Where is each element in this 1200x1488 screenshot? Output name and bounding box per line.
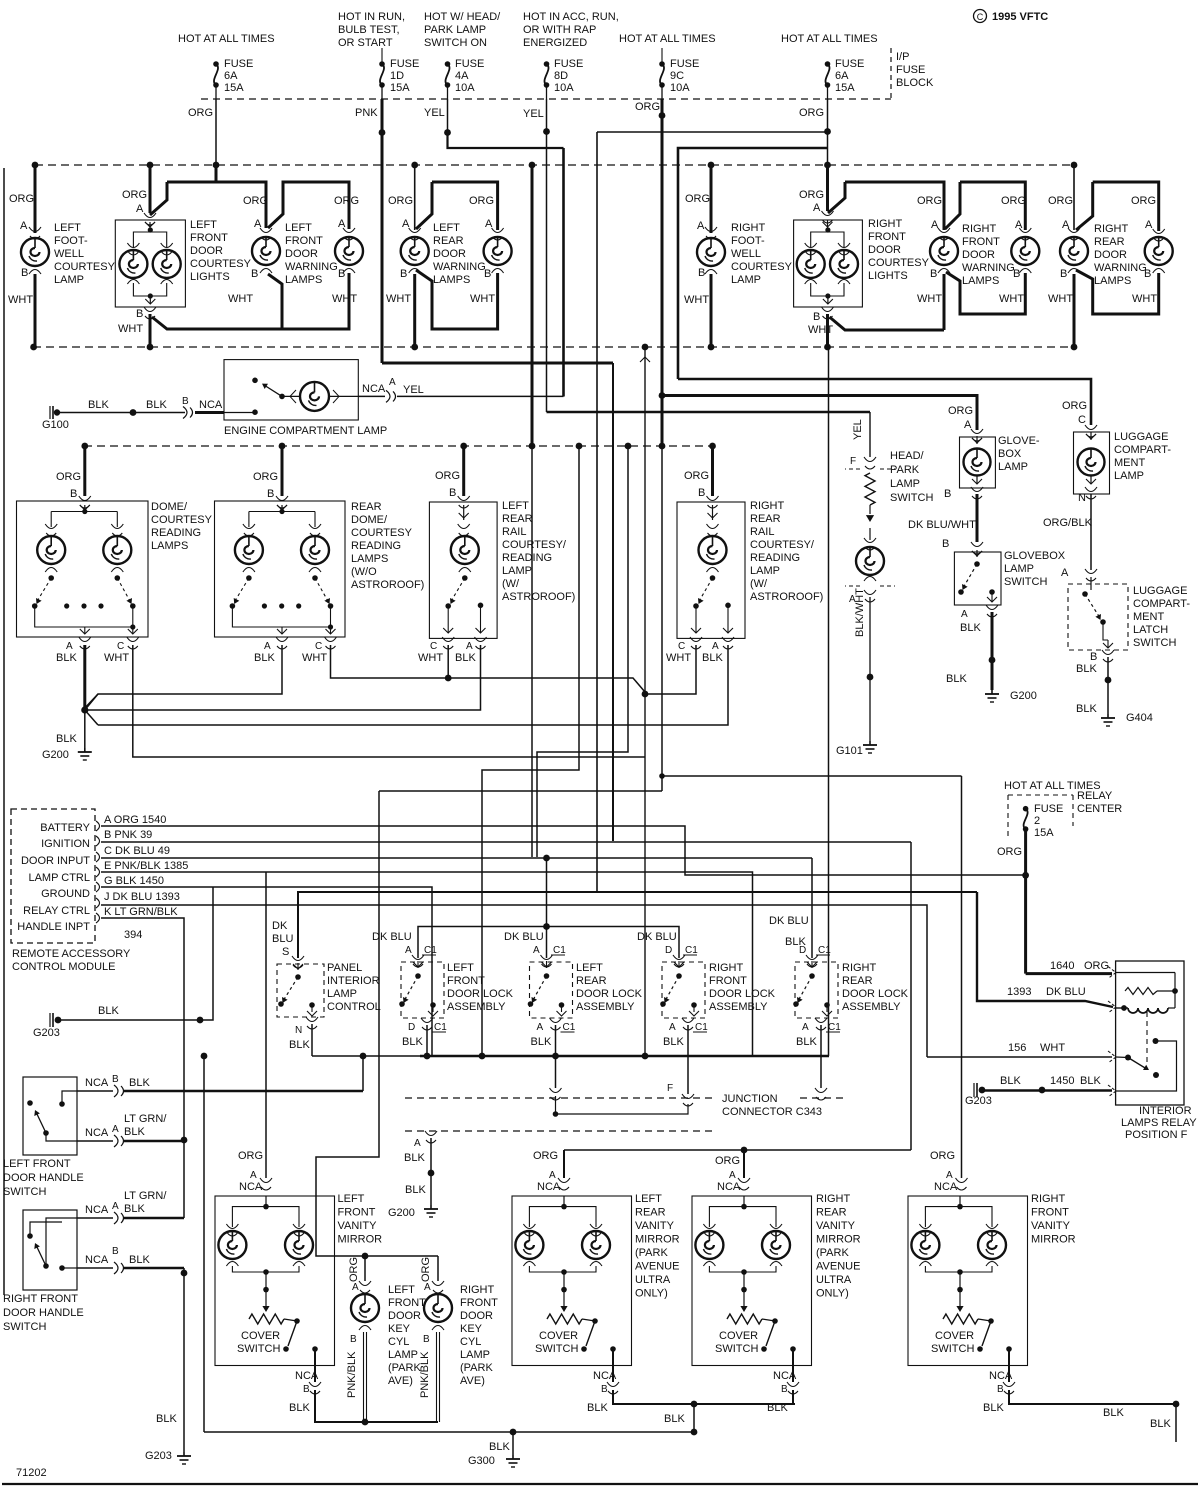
svg-text:NCA: NCA — [199, 399, 223, 411]
svg-text:394: 394 — [124, 929, 142, 941]
svg-text:AVE): AVE) — [388, 1375, 413, 1387]
svg-text:NCA: NCA — [85, 1127, 109, 1139]
svg-text:1450: 1450 — [1050, 1075, 1074, 1087]
svg-text:A: A — [669, 1022, 676, 1033]
svg-text:B: B — [944, 488, 951, 500]
svg-text:NCA: NCA — [85, 1254, 109, 1266]
wire BLK G100 to engine lamp — [57, 412, 185, 414]
lamp right footwell courtesy lamp — [710, 165, 713, 233]
svg-text:S: S — [282, 946, 289, 958]
svg-text:C: C — [117, 641, 124, 652]
svg-text:VANITY: VANITY — [635, 1220, 675, 1232]
svg-text:MENT: MENT — [1133, 611, 1164, 623]
svg-text:BLK: BLK — [1076, 663, 1097, 675]
svg-text:B: B — [930, 268, 937, 280]
svg-text:A: A — [338, 218, 346, 230]
svg-text:ENERGIZED: ENERGIZED — [523, 37, 587, 49]
svg-text:NCA: NCA — [537, 1181, 561, 1193]
svg-text:ORG: ORG — [930, 1150, 955, 1162]
svg-text:VANITY: VANITY — [1031, 1220, 1071, 1232]
wire C DK BLU 49 to door lock feed rail and right rear lock — [101, 857, 812, 859]
svg-text:RIGHT FRONT: RIGHT FRONT — [3, 1293, 78, 1305]
remote accessory control module (dashed box) — [11, 809, 95, 943]
svg-text:YEL: YEL — [403, 384, 424, 396]
svg-text:REAR: REAR — [750, 513, 781, 525]
relay actuator dashed — [1146, 1012, 1148, 1066]
svg-text:COURTESY: COURTESY — [351, 527, 413, 539]
wire vanity feed left front from E line — [265, 872, 267, 1178]
svg-text:WARNING: WARNING — [1094, 262, 1147, 274]
lamp courtesy right bulb — [153, 250, 181, 278]
wire WHT x645 bus2 to relay (upper part) — [644, 347, 646, 694]
svg-text:MIRROR: MIRROR — [635, 1234, 680, 1246]
svg-text:BLK: BLK — [767, 1402, 788, 1414]
wire PNK vertical to y363 — [381, 132, 384, 363]
svg-text:DOOR INPUT: DOOR INPUT — [21, 855, 90, 867]
vanity output NCA B BLK — [314, 1349, 316, 1382]
svg-text:ORG: ORG — [56, 471, 81, 483]
svg-text:1640: 1640 — [1050, 960, 1074, 972]
lamp assembly dome/courtesy reading lamps — [83, 446, 86, 496]
svg-text:FRONT: FRONT — [447, 975, 485, 987]
svg-text:B: B — [182, 396, 189, 407]
svg-text:WHT: WHT — [808, 324, 833, 336]
connector NCA B BLK right handle — [77, 1267, 113, 1269]
svg-text:RAIL: RAIL — [750, 526, 774, 538]
svg-text:GLOVE-: GLOVE- — [998, 435, 1040, 447]
svg-text:BLK: BLK — [960, 622, 981, 634]
wire YEL from fuse 8D — [546, 99, 548, 132]
svg-text:ORG: ORG — [917, 195, 942, 207]
svg-text:LAMPS: LAMPS — [351, 553, 388, 565]
svg-text:ORG: ORG — [435, 470, 460, 482]
svg-text:2: 2 — [1034, 815, 1040, 827]
svg-text:A: A — [352, 1282, 359, 1293]
svg-text:BLK: BLK — [946, 673, 967, 685]
svg-text:MIRROR: MIRROR — [338, 1234, 383, 1246]
svg-text:ORG: ORG — [1048, 195, 1073, 207]
svg-text:DK: DK — [272, 920, 288, 932]
svg-text:DOOR LOCK: DOOR LOCK — [576, 988, 643, 1000]
svg-text:KEY: KEY — [388, 1323, 411, 1335]
wire x579 bus3 to BLK collector — [482, 446, 579, 1056]
svg-text:AVENUE: AVENUE — [816, 1261, 860, 1273]
svg-text:G BLK 1450: G BLK 1450 — [104, 875, 164, 887]
svg-text:LAMPS RELAY: LAMPS RELAY — [1121, 1117, 1197, 1129]
svg-text:B: B — [698, 487, 705, 499]
wire DK BLU 1393 to relay — [977, 892, 1113, 1007]
svg-text:BLK: BLK — [1080, 1075, 1101, 1087]
svg-text:LEFT: LEFT — [433, 222, 460, 234]
svg-text:DOOR HANDLE: DOOR HANDLE — [3, 1172, 84, 1184]
wire PNK vertical x613 down to RACM B line — [612, 363, 614, 841]
svg-text:HANDLE INPT: HANDLE INPT — [17, 921, 90, 933]
svg-text:READING: READING — [750, 552, 800, 564]
svg-text:C: C — [678, 641, 685, 652]
svg-text:9C: 9C — [670, 70, 684, 82]
relay switch blade — [1125, 1055, 1131, 1061]
svg-text:DOOR: DOOR — [962, 249, 995, 261]
RACM pin connectors — [96, 821, 100, 831]
svg-text:G200: G200 — [42, 749, 69, 761]
lamp right front warning right bulb — [1011, 237, 1039, 265]
svg-text:FUSE: FUSE — [390, 58, 419, 70]
svg-text:BLK: BLK — [289, 1039, 310, 1051]
svg-text:DK BLU: DK BLU — [1046, 986, 1086, 998]
lamp assembly left front door warning lamps — [215, 165, 218, 182]
wire BLK left front vanity output — [315, 1390, 438, 1422]
svg-text:HOT IN ACC, RUN,: HOT IN ACC, RUN, — [523, 11, 619, 23]
svg-text:WHT: WHT — [228, 293, 253, 305]
svg-text:NCA: NCA — [295, 1370, 319, 1382]
wire YEL from fuse 4A — [447, 99, 449, 132]
left page border — [3, 168, 5, 1295]
fuse 1D 15A — [381, 48, 383, 64]
svg-text:LAMP: LAMP — [731, 274, 761, 286]
svg-text:A: A — [729, 1170, 736, 1181]
ground G200 right — [991, 690, 993, 694]
svg-text:B: B — [303, 1384, 310, 1395]
svg-text:RELAY CTRL: RELAY CTRL — [23, 905, 90, 917]
wire BLK 1450 BLK G203 to relay — [982, 1089, 1112, 1092]
svg-text:C1: C1 — [828, 1022, 841, 1033]
bus ORG distribution (dashed) y165 — [35, 164, 1074, 166]
svg-text:FUSE: FUSE — [224, 58, 253, 70]
svg-text:B: B — [781, 1384, 788, 1395]
svg-text:E PNK/BLK 1385: E PNK/BLK 1385 — [104, 860, 188, 872]
svg-text:VANITY: VANITY — [338, 1220, 378, 1232]
svg-text:B: B — [400, 268, 407, 280]
connector NCA A LT GRN/BLK left handle — [77, 1140, 113, 1142]
svg-text:ORG: ORG — [997, 846, 1022, 858]
lamp assembly rear dome/courtesy reading lamps — [281, 446, 284, 496]
svg-text:B: B — [21, 267, 28, 279]
svg-text:A: A — [414, 1138, 421, 1149]
fuse 4A 10A — [445, 61, 451, 67]
svg-text:A: A — [1145, 219, 1153, 231]
svg-text:LAMPS: LAMPS — [285, 274, 322, 286]
svg-text:BLK: BLK — [56, 733, 77, 745]
svg-text:4A: 4A — [455, 70, 469, 82]
wire A ORG 1540 to relay — [101, 826, 1026, 875]
svg-text:BLK/WHT: BLK/WHT — [854, 588, 866, 637]
svg-text:CENTER: CENTER — [1077, 803, 1122, 815]
svg-text:PARK LAMP: PARK LAMP — [424, 24, 486, 36]
switch right rear rail — [698, 578, 713, 603]
wire WHT left courtesy to bus2 and warning rail — [149, 314, 152, 347]
svg-text:ORG: ORG — [253, 471, 278, 483]
lamp right rear warning left bulb — [1060, 237, 1088, 265]
svg-text:ORG: ORG — [1131, 195, 1156, 207]
vanity resistor feed arrow — [563, 1290, 565, 1308]
wire BLK luggage latch to G404 — [1107, 657, 1109, 714]
switch engine compartment lamp — [224, 412, 255, 414]
svg-text:LAMP: LAMP — [890, 478, 920, 490]
svg-text:FRONT: FRONT — [709, 975, 747, 987]
svg-text:ORG: ORG — [334, 195, 359, 207]
svg-text:A: A — [549, 1170, 556, 1181]
bus ORG row2 distribution (dashed) y446 — [84, 445, 713, 447]
wire ORG from fuse 6A right — [827, 99, 829, 132]
svg-text:ORG: ORG — [469, 195, 494, 207]
svg-text:AVENUE: AVENUE — [635, 1261, 679, 1273]
relay resistor — [1116, 972, 1175, 974]
svg-text:IGNITION: IGNITION — [41, 838, 90, 850]
svg-text:LAMP: LAMP — [1114, 470, 1144, 482]
svg-text:A: A — [20, 220, 28, 232]
wire ORG jog y148 to x678 — [678, 148, 828, 379]
luggage compartment latch switch — [1068, 584, 1128, 650]
svg-text:ORG: ORG — [243, 195, 268, 207]
connector NCA B BLK left handle — [77, 1090, 113, 1092]
svg-text:ORG: ORG — [9, 193, 34, 205]
svg-text:FRONT: FRONT — [190, 232, 228, 244]
svg-text:B: B — [942, 538, 949, 550]
wire PNK/BLK right key cyl down — [436, 1332, 438, 1422]
svg-text:WHT: WHT — [418, 652, 443, 664]
relay coil — [1121, 1005, 1127, 1011]
svg-text:DK BLU: DK BLU — [769, 915, 809, 927]
vanity lamp drops — [924, 1212, 926, 1227]
wire K LT GRN/BLK 394 to door handle switches — [101, 918, 184, 1140]
lamp assembly right front door warning lamps — [845, 182, 944, 230]
switch dome reading left — [36, 578, 51, 603]
fuse 9C 10A — [661, 48, 663, 64]
fuse 8D 10A — [544, 61, 550, 67]
svg-text:DOOR: DOOR — [1094, 249, 1127, 261]
vanity lamp right bulb — [285, 1231, 313, 1259]
relay pin connectors — [1108, 967, 1116, 979]
svg-text:FRONT: FRONT — [388, 1297, 426, 1309]
ground G203 bottom left — [183, 1452, 185, 1456]
svg-text:FOOT-: FOOT- — [54, 235, 88, 247]
svg-text:G404: G404 — [1126, 712, 1153, 724]
svg-text:C: C — [1078, 414, 1086, 426]
fuse 2 15A — [1023, 806, 1029, 812]
wire PNK x911 down to vanity feed line — [910, 842, 912, 1150]
lamp left rear rail bulb — [451, 536, 479, 564]
switch left rear rail — [450, 578, 465, 603]
svg-text:WHT: WHT — [684, 294, 709, 306]
svg-text:WARNING: WARNING — [285, 261, 338, 273]
svg-text:71202: 71202 — [16, 1467, 47, 1479]
svg-text:RELAY: RELAY — [1077, 790, 1113, 802]
vanity output NCA B BLK — [612, 1349, 614, 1382]
vanity lamp drops — [708, 1212, 710, 1227]
svg-text:B PNK 39: B PNK 39 — [104, 829, 152, 841]
svg-text:LEFT: LEFT — [635, 1193, 662, 1205]
svg-text:WELL: WELL — [54, 248, 84, 260]
svg-text:RIGHT: RIGHT — [842, 962, 877, 974]
svg-text:LAMP: LAMP — [502, 565, 532, 577]
svg-text:ORG: ORG — [533, 1150, 558, 1162]
svg-text:ORG: ORG — [122, 189, 147, 201]
wire LT GRN/BLK right handle to K net — [124, 1217, 184, 1220]
wire E PNK/BLK 1385 down to collector — [101, 872, 753, 1056]
svg-text:LIGHTS: LIGHTS — [868, 270, 908, 282]
svg-text:COURTESY: COURTESY — [190, 258, 252, 270]
svg-text:KEY: KEY — [460, 1323, 483, 1335]
svg-text:NCA: NCA — [239, 1181, 263, 1193]
vanity lamp left bulb — [695, 1231, 723, 1259]
svg-text:DOOR: DOOR — [460, 1310, 493, 1322]
svg-text:RIGHT: RIGHT — [731, 222, 766, 234]
wire ORG from fuse 9C — [661, 99, 664, 116]
svg-text:B: B — [350, 1334, 357, 1345]
svg-text:CONNECTOR C343: CONNECTOR C343 — [722, 1106, 822, 1118]
ground G200 bottom — [430, 1205, 432, 1209]
wire WHT right rear warning to bus2 — [1073, 274, 1076, 347]
svg-text:LAMP: LAMP — [998, 461, 1028, 473]
svg-text:D: D — [665, 945, 672, 956]
svg-text:BULB TEST,: BULB TEST, — [338, 24, 400, 36]
svg-text:COURTESY: COURTESY — [731, 261, 793, 273]
lamp dome right bulb — [103, 536, 131, 564]
svg-text:INTERIOR: INTERIOR — [1139, 1105, 1192, 1117]
right front door handle switch — [23, 1210, 77, 1290]
svg-text:15A: 15A — [835, 82, 855, 94]
svg-text:FUSE: FUSE — [1034, 803, 1063, 815]
wire ORG fuse9C tee down to bus3 — [661, 396, 664, 447]
vanity lamp right bulb — [582, 1231, 610, 1259]
svg-text:10A: 10A — [670, 82, 690, 94]
svg-text:6A: 6A — [835, 70, 849, 82]
svg-text:1393: 1393 — [1007, 986, 1031, 998]
lamp assembly right rear rail courtesy/reading lamp — [711, 446, 714, 496]
svg-text:BOX: BOX — [998, 448, 1022, 460]
svg-text:BLK: BLK — [664, 1413, 685, 1425]
svg-text:DK BLU: DK BLU — [372, 931, 412, 943]
svg-text:C1: C1 — [424, 945, 437, 956]
wire BLK left handle to x363 — [124, 1090, 363, 1093]
svg-text:SWITCH: SWITCH — [3, 1321, 46, 1333]
vanity cover switch blade — [586, 1321, 595, 1346]
svg-text:GLOVEBOX: GLOVEBOX — [1004, 550, 1066, 562]
svg-text:A: A — [112, 1201, 119, 1212]
svg-text:ORG: ORG — [1084, 960, 1109, 972]
svg-text:G101: G101 — [836, 745, 863, 757]
svg-text:A ORG 1540: A ORG 1540 — [104, 814, 166, 826]
wire 156 WHT to relay — [927, 1056, 1112, 1058]
svg-text:HOT W/ HEAD/: HOT W/ HEAD/ — [424, 11, 501, 23]
svg-text:ORG: ORG — [1001, 195, 1026, 207]
vanity lamp left bulb — [515, 1231, 543, 1259]
svg-text:LEFT FRONT: LEFT FRONT — [3, 1158, 71, 1170]
svg-text:A: A — [931, 219, 939, 231]
svg-text:FUSE: FUSE — [670, 58, 699, 70]
svg-text:FUSE: FUSE — [455, 58, 484, 70]
svg-text:LEFT: LEFT — [447, 962, 474, 974]
wire DK BLU/WHT glovebox lamp to switch — [976, 494, 979, 542]
svg-text:MENT: MENT — [1114, 457, 1145, 469]
svg-text:BLK: BLK — [56, 652, 77, 664]
svg-text:OR START: OR START — [338, 37, 393, 49]
switch rear dome right — [315, 578, 329, 603]
svg-text:B: B — [251, 268, 258, 280]
svg-text:REAR: REAR — [351, 501, 382, 513]
svg-text:RIGHT: RIGHT — [816, 1193, 851, 1205]
svg-text:I/P: I/P — [896, 51, 909, 63]
svg-text:NCA: NCA — [717, 1181, 741, 1193]
svg-text:C: C — [977, 12, 984, 22]
svg-text:JUNCTION: JUNCTION — [722, 1093, 778, 1105]
svg-text:FUSE: FUSE — [896, 64, 925, 76]
connector A YEL engine lamp — [358, 395, 385, 397]
wire ORG x662 below bus3 to y776 — [661, 446, 663, 776]
wire ORG fuse 9C down to glovebox tee — [661, 116, 664, 396]
svg-text:A: A — [537, 1022, 544, 1033]
wire WHT dome to collector — [133, 645, 645, 757]
lamp left footwell courtesy lamp — [34, 165, 37, 233]
svg-text:A: A — [533, 945, 540, 956]
svg-text:BLK: BLK — [88, 399, 109, 411]
svg-text:NCA: NCA — [773, 1370, 797, 1382]
svg-text:B: B — [338, 268, 345, 280]
ground G101 — [869, 741, 871, 745]
vanity lamp right bulb — [762, 1231, 790, 1259]
svg-text:A: A — [66, 641, 73, 652]
lamp right rear rail bulb — [699, 536, 727, 564]
svg-text:DK BLU: DK BLU — [504, 931, 544, 943]
svg-text:15A: 15A — [390, 82, 410, 94]
svg-text:LEFT: LEFT — [54, 222, 81, 234]
svg-text:BLK: BLK — [129, 1254, 150, 1266]
svg-text:DOOR LOCK: DOOR LOCK — [842, 988, 909, 1000]
wire WHT left rear warning to bus2 — [413, 274, 416, 347]
svg-text:SWITCH: SWITCH — [890, 492, 933, 504]
svg-text:C: C — [430, 641, 437, 652]
svg-text:RIGHT: RIGHT — [460, 1284, 495, 1296]
wire ORG/BLK luggage lamp to latch switch — [1090, 494, 1092, 570]
wire BLK collector y1056 — [420, 1055, 829, 1058]
svg-text:FRONT: FRONT — [1031, 1207, 1069, 1219]
svg-text:WHT: WHT — [302, 652, 327, 664]
svg-text:COURTESY: COURTESY — [54, 261, 116, 273]
svg-text:G200: G200 — [1010, 690, 1037, 702]
svg-text:NCA: NCA — [934, 1181, 958, 1193]
svg-text:COVER: COVER — [539, 1330, 578, 1342]
vanity lamp drops — [231, 1212, 233, 1227]
svg-text:WHT: WHT — [917, 293, 942, 305]
svg-text:BLK: BLK — [124, 1203, 145, 1215]
svg-text:BLK: BLK — [129, 1077, 150, 1089]
svg-text:B: B — [267, 488, 274, 500]
connector NCA A LT GRN/BLK right handle — [77, 1217, 113, 1219]
svg-text:A: A — [405, 945, 412, 956]
svg-text:WELL: WELL — [731, 248, 761, 260]
wire BLK right front lock to junction connector F — [687, 1025, 689, 1094]
wire BLK right handle to G203 — [124, 1267, 184, 1270]
svg-text:DOOR: DOOR — [190, 245, 223, 257]
vanity lamp drops — [528, 1212, 530, 1227]
wire BLK x363 up to collector — [362, 1056, 364, 1091]
svg-text:REAR: REAR — [502, 513, 533, 525]
svg-text:ENGINE COMPARTMENT LAMP: ENGINE COMPARTMENT LAMP — [224, 425, 387, 437]
svg-text:COURTESY: COURTESY — [151, 514, 213, 526]
ground G100 — [52, 406, 54, 419]
switch dome reading right — [117, 578, 131, 603]
svg-text:READING: READING — [351, 540, 401, 552]
svg-text:POSITION F: POSITION F — [1125, 1129, 1188, 1141]
bus WHT return (dashed) y347 — [33, 346, 1074, 348]
wire BLK rear dome to junction — [85, 645, 282, 708]
svg-text:REAR: REAR — [842, 975, 873, 987]
wire ORG fuse 2 to relay 1640 — [1024, 829, 1027, 974]
svg-text:DOOR LOCK: DOOR LOCK — [709, 988, 776, 1000]
lamp left front warning right bulb — [335, 237, 363, 265]
wire BLK panel control down — [311, 1024, 313, 1056]
svg-text:BLK: BLK — [156, 1413, 177, 1425]
